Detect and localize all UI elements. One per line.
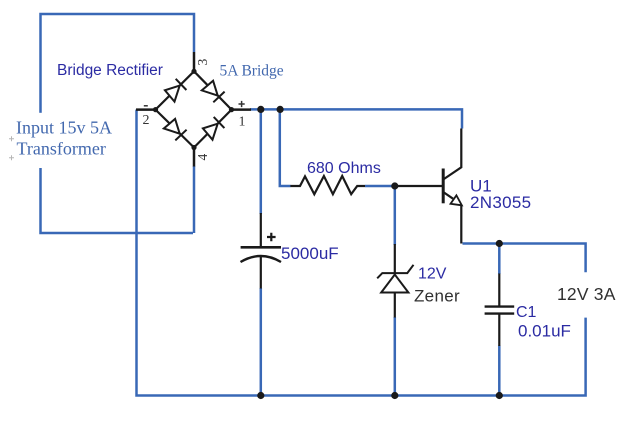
wire resistor right to junction xyxy=(365,185,395,188)
wire zener branch xyxy=(394,186,397,396)
svg-text:5A Bridge: 5A Bridge xyxy=(220,63,284,80)
junction dot A (filter cap tap) xyxy=(257,106,264,113)
svg-text:12V 3A: 12V 3A xyxy=(557,284,616,304)
svg-text:4: 4 xyxy=(195,154,210,161)
svg-text:12V: 12V xyxy=(418,266,447,283)
node 2 junction dot xyxy=(153,107,158,112)
zener cathode bar xyxy=(377,265,413,279)
svg-text:C1: C1 xyxy=(516,304,537,321)
node 1 stub xyxy=(232,108,252,111)
svg-text:1: 1 xyxy=(239,115,246,130)
capacitor plus mark xyxy=(267,233,276,242)
label background Input Transformer xyxy=(6,113,117,168)
stray plus mark 1 xyxy=(9,136,14,141)
node 2 stub xyxy=(136,108,156,111)
diode D-bottomleft (node2 to node4) xyxy=(164,119,187,140)
svg-text:3: 3 xyxy=(195,59,210,66)
node 1 junction dot xyxy=(229,107,234,112)
stray plus mark 2 xyxy=(9,155,14,160)
wire transformer box loop xyxy=(41,14,195,233)
wire output top right xyxy=(463,244,586,273)
svg-text:0.01uF: 0.01uF xyxy=(518,322,571,341)
wire top positive rail xyxy=(250,109,462,128)
transistor Q1 body xyxy=(442,169,445,204)
capacitor 5000uF top plate xyxy=(241,246,281,249)
capacitor C1 plates xyxy=(485,307,515,314)
capacitor C1 leads xyxy=(498,274,500,347)
wire 5000uF branch xyxy=(260,109,263,395)
transistor emitter arrow xyxy=(451,195,462,205)
diode D-topright (node3 to node1) xyxy=(202,81,225,103)
junction dot output node xyxy=(496,240,503,247)
minus label at node 2 xyxy=(144,105,148,107)
svg-text:5000uF: 5000uF xyxy=(281,244,339,263)
wire node2 to bottom rail and bottom rail to right side xyxy=(137,110,586,396)
zener diode leads xyxy=(394,244,396,318)
svg-text:Bridge Rectifier: Bridge Rectifier xyxy=(57,62,163,79)
svg-text:2: 2 xyxy=(143,113,150,128)
zener anode triangle xyxy=(381,275,408,293)
transistor emitter xyxy=(443,192,461,244)
junction dot ground cap xyxy=(257,392,264,399)
resistor R1 680 Ohms xyxy=(290,176,365,194)
diode D-bottomright (node4 to node1) xyxy=(203,117,225,140)
bridge rectifier diamond xyxy=(156,71,232,147)
svg-text:Zener: Zener xyxy=(414,287,460,306)
diode D-topleft (node2 to node3) xyxy=(165,79,187,102)
svg-text:Input 15v 5A: Input 15v 5A xyxy=(16,118,112,138)
transistor collector xyxy=(443,129,461,180)
svg-text:Transformer: Transformer xyxy=(17,139,106,159)
node 4 stub xyxy=(193,148,196,167)
wire C1 branch xyxy=(498,244,501,396)
node 3 junction dot xyxy=(191,69,196,74)
plus label at node 1 xyxy=(239,101,245,107)
wire 680 ohm branch left xyxy=(280,109,291,186)
junction dot base node xyxy=(391,182,398,189)
junction dot ground zener xyxy=(391,392,398,399)
svg-text:680 Ohms: 680 Ohms xyxy=(307,160,381,177)
svg-text:2N3055: 2N3055 xyxy=(470,193,531,212)
junction dot B (resistor tap) xyxy=(277,106,284,113)
capacitor 5000uF bottom curved plate xyxy=(241,256,282,262)
junction dot ground C1 xyxy=(496,392,503,399)
node 4 junction dot xyxy=(191,145,196,150)
capacitor 5000uF leads xyxy=(260,213,262,289)
wire base node to transistor xyxy=(395,185,442,187)
node 3 stub xyxy=(193,52,196,70)
